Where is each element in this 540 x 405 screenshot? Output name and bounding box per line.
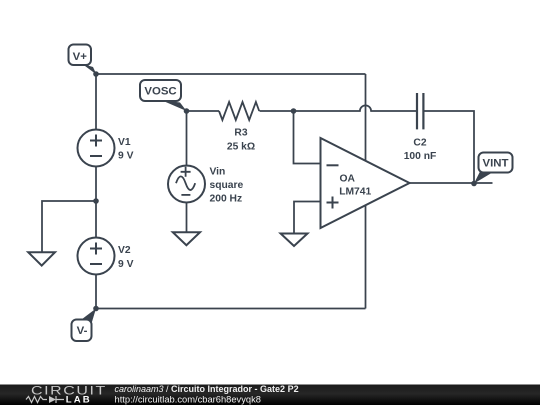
ground GND1 left [28, 252, 55, 265]
svg-text:V-: V- [77, 325, 88, 337]
resistor R3 [219, 102, 259, 152]
wire op-amp output [408, 182, 493, 184]
svg-text:V+: V+ [73, 51, 88, 63]
wire ground branch left [42, 201, 96, 252]
ground GND3 under op-amp [281, 234, 308, 247]
footer url text [115, 394, 261, 404]
voltage source V1 [78, 130, 134, 167]
junction dot VINT node [471, 181, 477, 187]
wire C2 right to output node [424, 111, 475, 184]
svg-text:VINT: VINT [483, 158, 509, 170]
svg-text:square: square [210, 180, 244, 191]
svg-text:carolinaam3 / Circuito Integra: carolinaam3 / Circuito Integrador - Gate… [115, 384, 299, 394]
wire V2 bottom to V- node [95, 275, 97, 309]
svg-text:V1: V1 [118, 137, 131, 148]
capacitor C2 [404, 93, 437, 162]
wire VOSC node to R3 [187, 110, 220, 112]
svg-text:R3: R3 [234, 128, 247, 139]
wire top V+ rail [96, 73, 366, 75]
wire V+ node to V1 top [95, 74, 97, 130]
junction dot V- node [93, 306, 99, 312]
svg-text:100 nF: 100 nF [404, 151, 437, 162]
wire right vertical V+ to V- rail [365, 74, 367, 309]
op-amp OA LM741 [321, 138, 410, 228]
wire feedback node to C2 with hop [294, 105, 418, 111]
ground GND2 under Vin [173, 232, 200, 245]
CircuitLab logo [26, 383, 107, 405]
footer title text [115, 384, 299, 394]
footer bar [0, 385, 540, 405]
node V- flag [72, 309, 97, 342]
svg-text:200 Hz: 200 Hz [210, 194, 243, 205]
wire inverting input branch [294, 111, 321, 164]
wire Vin bottom to ground [186, 203, 188, 232]
svg-text:LM741: LM741 [339, 187, 371, 198]
svg-text:9 V: 9 V [118, 151, 134, 162]
wire non-inverting input branch [294, 202, 321, 234]
node VOSC flag [140, 80, 187, 111]
svg-text:http://circuitlab.com/cbar6h8e: http://circuitlab.com/cbar6h8evyqk8 [115, 394, 261, 404]
wire V1 bottom to V2 top [95, 167, 97, 238]
junction dot V+ node [93, 71, 99, 77]
svg-text:Vin: Vin [210, 166, 226, 177]
wire VOSC node to Vin top [186, 111, 188, 166]
svg-text:VOSC: VOSC [144, 85, 176, 97]
voltage source Vin [168, 166, 244, 205]
node V+ flag [69, 45, 97, 75]
svg-text:OA: OA [340, 174, 356, 185]
voltage source V2 [78, 238, 134, 275]
svg-text:9 V: 9 V [118, 259, 134, 270]
wire bottom V- rail [96, 308, 366, 310]
junction dot feedback node [291, 108, 297, 114]
junction dot between V1 and V2 [93, 198, 99, 204]
junction dot VOSC node [184, 108, 190, 114]
svg-text:LAB: LAB [66, 395, 92, 405]
svg-text:25 kΩ: 25 kΩ [227, 141, 255, 152]
node VINT flag [474, 153, 513, 184]
svg-text:V2: V2 [118, 245, 131, 256]
svg-text:C2: C2 [413, 137, 426, 148]
wire R3 to feedback node [260, 110, 294, 112]
